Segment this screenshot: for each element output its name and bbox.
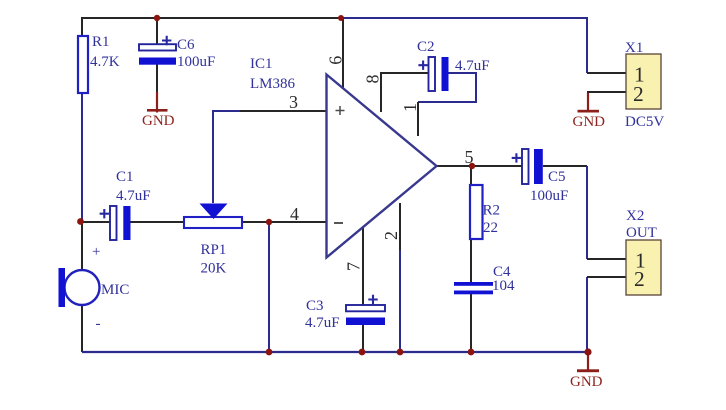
- svg-text:MIC: MIC: [101, 282, 129, 298]
- svg-text:4.7uF: 4.7uF: [455, 58, 490, 74]
- svg-text:LM386: LM386: [250, 76, 296, 92]
- svg-text:RP1: RP1: [201, 242, 227, 258]
- svg-text:C6: C6: [177, 37, 195, 53]
- svg-text:7: 7: [344, 262, 364, 271]
- svg-text:X1: X1: [625, 40, 643, 56]
- svg-text:1: 1: [400, 103, 420, 112]
- svg-text:22: 22: [483, 220, 498, 236]
- svg-text:R1: R1: [92, 34, 110, 50]
- svg-text:R2: R2: [483, 203, 501, 219]
- svg-text:2: 2: [381, 231, 401, 240]
- svg-text:6: 6: [325, 56, 345, 65]
- svg-text:GND: GND: [570, 374, 603, 390]
- svg-text:4.7uF: 4.7uF: [116, 188, 151, 204]
- svg-text:C3: C3: [306, 298, 324, 314]
- svg-text:4.7uF: 4.7uF: [305, 315, 340, 331]
- svg-text:GND: GND: [573, 114, 606, 130]
- svg-text:-: -: [96, 316, 101, 332]
- svg-text:104: 104: [492, 278, 515, 294]
- svg-text:C1: C1: [116, 169, 134, 185]
- svg-text:4.7K: 4.7K: [90, 54, 120, 70]
- svg-text:100uF: 100uF: [530, 188, 568, 204]
- svg-text:GND: GND: [142, 113, 175, 129]
- svg-text:3: 3: [289, 92, 298, 112]
- svg-text:2: 2: [633, 82, 644, 106]
- svg-text:2: 2: [634, 267, 645, 291]
- svg-text:OUT: OUT: [626, 225, 657, 241]
- svg-text:8: 8: [363, 75, 383, 84]
- svg-text:C5: C5: [548, 169, 566, 185]
- svg-text:DC5V: DC5V: [625, 114, 664, 130]
- svg-text:4: 4: [290, 204, 299, 224]
- svg-text:20K: 20K: [201, 261, 227, 277]
- svg-text:C2: C2: [417, 39, 435, 55]
- svg-text:IC1: IC1: [250, 56, 273, 72]
- svg-text:+: +: [92, 244, 100, 260]
- svg-text:5: 5: [465, 147, 474, 167]
- svg-text:X2: X2: [626, 208, 644, 224]
- svg-text:100uF: 100uF: [177, 54, 215, 70]
